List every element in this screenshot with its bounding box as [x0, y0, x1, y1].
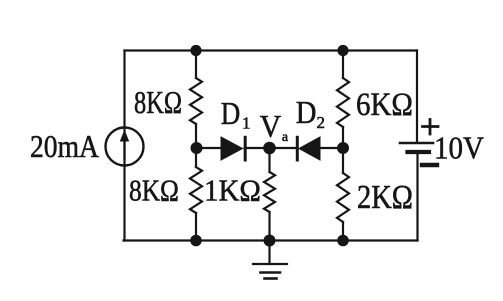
svg-text:1KΩ: 1KΩ — [204, 174, 261, 208]
svg-text:a: a — [282, 130, 289, 145]
svg-text:2: 2 — [317, 113, 326, 132]
svg-text:6KΩ: 6KΩ — [356, 85, 413, 122]
svg-text:D: D — [221, 97, 240, 132]
svg-text:V: V — [260, 109, 281, 144]
svg-text:2KΩ: 2KΩ — [357, 178, 413, 216]
svg-text:20mA: 20mA — [30, 130, 100, 164]
svg-text:D: D — [296, 95, 317, 131]
svg-text:8KΩ: 8KΩ — [129, 174, 179, 208]
svg-text:8KΩ: 8KΩ — [134, 86, 182, 121]
svg-text:1: 1 — [242, 114, 251, 133]
svg-text:10V: 10V — [434, 130, 484, 166]
